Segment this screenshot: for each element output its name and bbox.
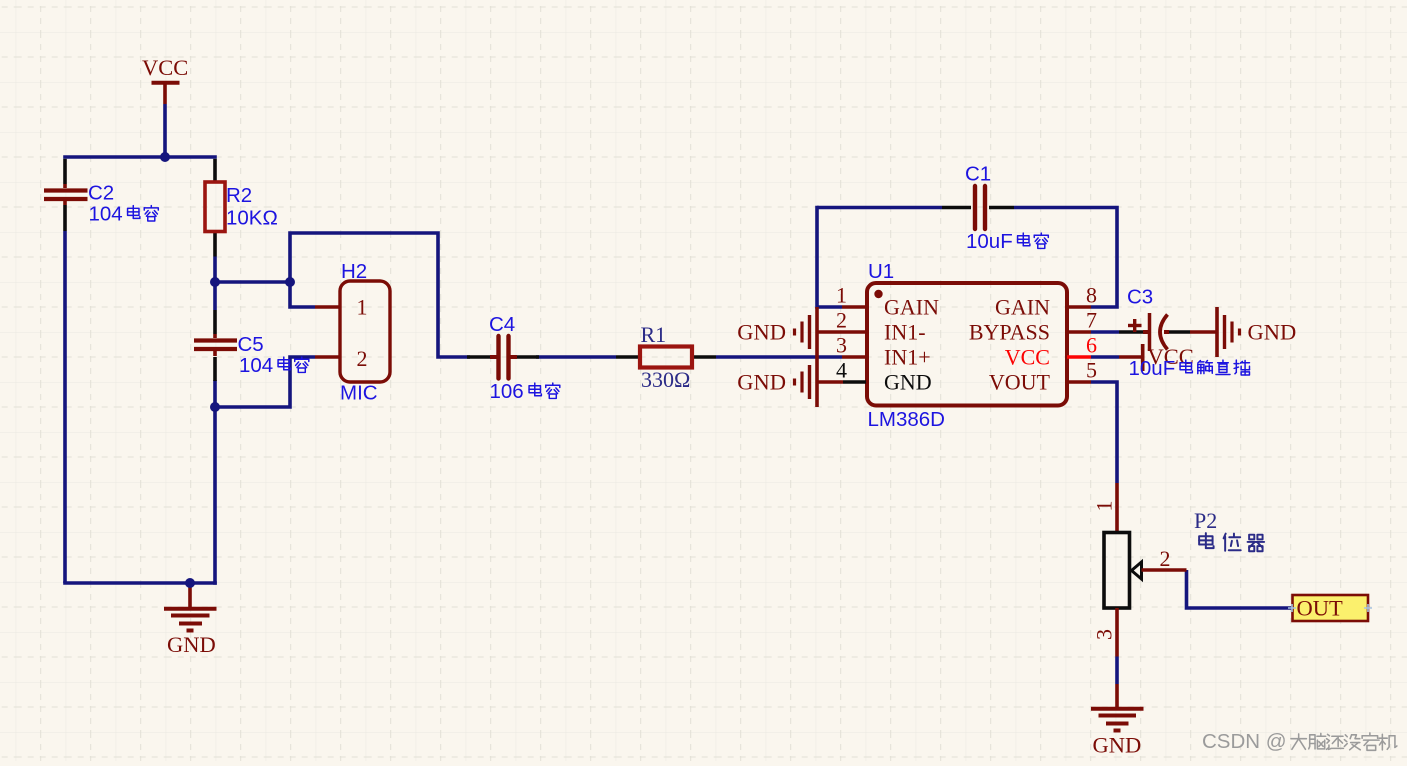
svg-text:3: 3 [1092,629,1117,640]
svg-text:10KΩ: 10KΩ [226,207,278,230]
svg-text:7: 7 [1086,308,1097,333]
svg-text:GAIN: GAIN [995,295,1050,320]
svg-text:GND: GND [737,320,786,345]
svg-text:GND: GND [1093,733,1142,758]
svg-text:P2: P2 [1194,508,1217,533]
svg-text:GND: GND [1248,320,1297,345]
svg-text:1: 1 [1092,501,1117,512]
svg-text:OUT: OUT [1297,596,1343,621]
svg-text:GND: GND [884,370,932,395]
svg-text:5: 5 [1086,358,1097,383]
svg-text:U1: U1 [868,260,894,283]
svg-text:C2: C2 [88,182,114,205]
svg-text:8: 8 [1086,283,1097,308]
svg-text:IN1+: IN1+ [884,345,931,370]
svg-text:VCC: VCC [1005,345,1050,370]
svg-text:2: 2 [357,346,368,371]
svg-text:GND: GND [737,370,786,395]
svg-text:104: 104 [239,354,273,377]
svg-text:6: 6 [1086,333,1097,358]
svg-text:GAIN: GAIN [884,295,939,320]
svg-text:BYPASS: BYPASS [969,320,1050,345]
svg-text:10uF: 10uF [966,230,1013,253]
svg-text:GND: GND [167,632,216,657]
svg-text:330Ω: 330Ω [641,367,690,392]
svg-text:C3: C3 [1127,286,1153,309]
svg-text:10uF: 10uF [1129,357,1176,380]
svg-text:C4: C4 [489,313,515,336]
svg-text:4: 4 [836,358,847,383]
svg-text:R2: R2 [226,184,252,207]
svg-text:H2: H2 [341,260,367,283]
svg-text:1: 1 [357,295,368,320]
svg-text:1: 1 [836,283,847,308]
svg-text:2: 2 [1160,546,1171,571]
svg-text:CSDN @: CSDN @ [1202,730,1287,753]
svg-text:MIC: MIC [340,382,378,405]
svg-text:IN1-: IN1- [884,320,926,345]
svg-text:C1: C1 [965,163,991,186]
svg-text:106: 106 [490,380,524,403]
svg-text:R1: R1 [641,322,667,347]
svg-text:LM386D: LM386D [868,408,946,431]
svg-text:VOUT: VOUT [989,370,1051,395]
svg-text:C5: C5 [238,333,264,356]
svg-text:3: 3 [836,333,847,358]
svg-text:2: 2 [836,308,847,333]
svg-text:VCC: VCC [142,55,188,80]
svg-text:104: 104 [89,203,123,226]
